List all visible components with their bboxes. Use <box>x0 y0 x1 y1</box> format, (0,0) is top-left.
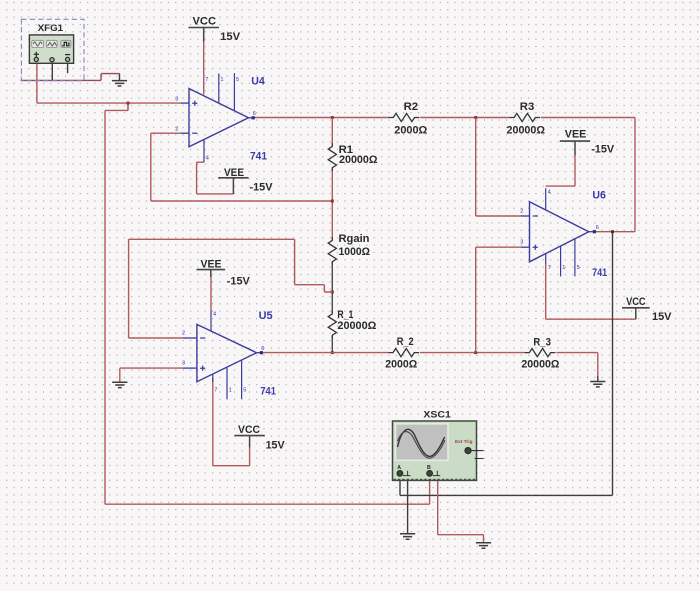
resistor R_2 2000ohm <box>385 336 419 371</box>
svg-text:3: 3 <box>182 360 185 366</box>
wire: U5 output along bottom through R_2, R_3 to ground <box>262 353 598 376</box>
svg-text:VCC: VCC <box>626 296 646 308</box>
svg-text:6: 6 <box>596 225 599 231</box>
svg-text:1: 1 <box>220 77 223 83</box>
svg-text:3: 3 <box>520 240 523 246</box>
ground (after R_3) <box>590 376 605 387</box>
svg-text:Ext Trig: Ext Trig <box>455 439 473 444</box>
wire: XFG1 + output down to main node rail <box>36 62 38 103</box>
VCC rail (U5) 15V <box>234 424 285 452</box>
svg-text:VCC: VCC <box>193 16 217 28</box>
svg-text:15V: 15V <box>266 440 286 452</box>
svg-text:6: 6 <box>253 111 256 117</box>
wire: node up to U6 + input <box>476 247 521 352</box>
ground (XFG1 common) <box>112 74 127 86</box>
svg-text:R_3: R_3 <box>533 337 551 349</box>
svg-text:2000Ω: 2000Ω <box>385 359 417 371</box>
svg-text:VEE: VEE <box>201 258 222 270</box>
op-amp U6 741 <box>520 188 607 279</box>
wire: U5 + input to ground <box>120 368 183 382</box>
svg-text:20000Ω: 20000Ω <box>521 359 559 371</box>
VCC rail (U6) 15V <box>622 296 672 323</box>
node: R1 bottom / Rgain top junction <box>331 200 334 203</box>
wire: scope B - terminal to ground <box>438 481 484 543</box>
op-amp U5 741 <box>182 310 276 399</box>
node: R2-R3 junction to U6 - input <box>474 116 477 119</box>
svg-text:3: 3 <box>175 97 178 103</box>
wire: U5 VEE supply <box>210 277 212 311</box>
svg-text:VEE: VEE <box>224 167 244 179</box>
node: Rgain bottom junction <box>331 291 334 294</box>
resistor Rgain 1000ohm <box>328 233 370 265</box>
svg-text:2: 2 <box>175 127 178 133</box>
svg-text:R2: R2 <box>404 101 419 113</box>
svg-text:-15V: -15V <box>227 276 251 288</box>
svg-text:20000Ω: 20000Ω <box>339 154 378 166</box>
wire: Rgain bottom to R_1 top (dark) <box>331 262 333 313</box>
wire: R_1 bottom lead to U5 output wire <box>331 336 333 353</box>
svg-text:U6: U6 <box>592 190 606 202</box>
svg-text:Rgain: Rgain <box>339 233 370 245</box>
svg-text:5: 5 <box>577 265 580 271</box>
wire: U6 pin7 to VCC <box>546 263 636 319</box>
svg-text:-15V: -15V <box>591 144 615 156</box>
svg-text:15V: 15V <box>220 31 241 43</box>
wire: R2/R3 node down to U6 - input <box>476 118 521 217</box>
wire: U5 feedback (- input to Rgain bottom) <box>129 239 333 338</box>
resistor R_1 20000ohm <box>328 309 376 339</box>
svg-text:U4: U4 <box>251 75 265 87</box>
svg-text:6: 6 <box>261 346 264 352</box>
wire: scope A - terminal to ground <box>400 481 415 540</box>
svg-text:7: 7 <box>214 388 217 394</box>
node: R_2/R_3 junction to U6 + input <box>474 351 477 354</box>
svg-text:XSC1: XSC1 <box>423 410 451 421</box>
svg-text:15V: 15V <box>652 311 672 323</box>
wire: XFG1 common to ground <box>21 74 120 81</box>
resistor R2 2000ohm <box>389 101 428 136</box>
svg-text:7: 7 <box>205 77 208 83</box>
svg-text:741: 741 <box>250 151 267 163</box>
node: U6 output junction <box>611 230 614 233</box>
wire: XFG1 common stub <box>51 62 53 80</box>
wire: U4 pin4 to VEE <box>197 162 234 194</box>
svg-text:R_1: R_1 <box>337 309 353 321</box>
VCC rail (U4) 15V <box>189 16 241 44</box>
oscilloscope XSC1 <box>393 410 484 481</box>
svg-text:20000Ω: 20000Ω <box>337 320 376 332</box>
VEE rail (U4) -15V <box>218 167 273 194</box>
op-amp U4 741 <box>175 73 267 163</box>
VEE rail (U5) -15V <box>197 258 251 287</box>
wire: U6 VEE supply <box>546 156 575 187</box>
svg-text:741: 741 <box>260 386 276 398</box>
svg-text:2000Ω: 2000Ω <box>394 124 427 136</box>
resistor R_3 20000ohm <box>521 337 559 371</box>
wire: vertical chain R1 leads <box>331 118 333 240</box>
wire: XFG1 - stub <box>67 62 69 73</box>
resistor R1 20000ohm <box>328 143 377 171</box>
node: R_1 bottom junction on U5 output <box>331 351 334 354</box>
svg-text:741: 741 <box>592 267 607 279</box>
svg-text:20000Ω: 20000Ω <box>507 124 546 136</box>
function generator XFG1 <box>21 19 84 80</box>
svg-text:1: 1 <box>229 388 232 394</box>
svg-text:2: 2 <box>182 330 185 336</box>
svg-text:2: 2 <box>520 208 523 214</box>
resistor R3 20000ohm <box>507 101 546 136</box>
wire: left rail down to scope B input <box>105 110 430 504</box>
wire: U6 output to node <box>595 231 613 233</box>
svg-text:4: 4 <box>206 156 209 162</box>
svg-text:VEE: VEE <box>565 129 587 141</box>
svg-text:U5: U5 <box>259 310 273 322</box>
wire: U4 output along top to R2, R3, down to U6 output node <box>254 118 636 232</box>
svg-text:R3: R3 <box>520 101 535 113</box>
svg-text:-15V: -15V <box>250 182 274 194</box>
wire: U6 output down and left to scope A input (black) <box>400 232 613 496</box>
svg-text:1: 1 <box>562 265 565 271</box>
svg-text:4: 4 <box>213 311 216 317</box>
svg-text:1000Ω: 1000Ω <box>339 246 371 258</box>
svg-text:5: 5 <box>243 388 246 394</box>
svg-text:7: 7 <box>548 265 551 271</box>
VEE rail (U6) -15V <box>560 129 615 156</box>
wire: U5 pin7 to VCC <box>213 378 250 466</box>
wire: signal node to U4 + input <box>37 102 181 104</box>
svg-text:VCC: VCC <box>238 424 260 436</box>
node: R1 top junction on U4 output <box>331 116 334 119</box>
svg-text:5: 5 <box>236 77 239 83</box>
svg-text:4: 4 <box>548 190 551 196</box>
svg-text:XFG1: XFG1 <box>38 23 64 34</box>
ground (scope B -) <box>476 543 491 548</box>
wire: U4 VCC supply <box>203 42 205 95</box>
wire: U4 feedback (- input to R1 bottom) <box>151 133 332 201</box>
svg-text:R_2: R_2 <box>397 336 414 348</box>
node A junction at XFG1 output <box>127 102 130 111</box>
ground (U5 + input) <box>112 382 127 387</box>
